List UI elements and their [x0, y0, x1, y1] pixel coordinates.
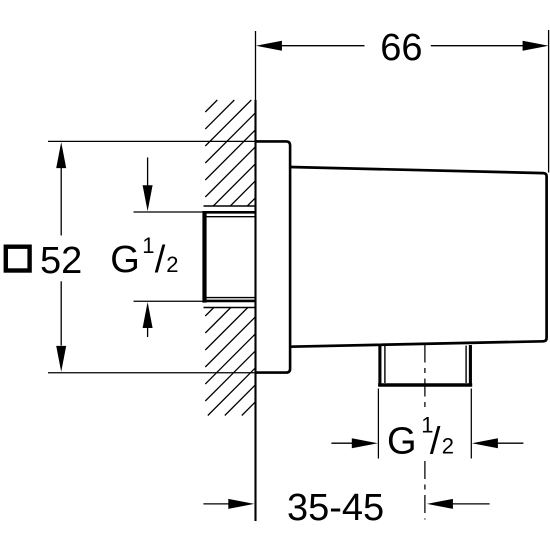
- inlet thread dim: extension line top: [134, 211, 204, 213]
- svg-text:/: /: [155, 239, 166, 281]
- centerline of outlet (dash-dot): [424, 345, 426, 520]
- outlet thread stub G1/2 (bottom): [378, 345, 472, 386]
- svg-text:52: 52: [40, 240, 82, 282]
- inlet thread dim: extension line bottom: [134, 300, 204, 302]
- dimension 35-45: right arrow to centerline: [427, 499, 490, 509]
- inlet thread dim: lower arrow (up): [143, 302, 153, 337]
- svg-text:G: G: [387, 420, 417, 462]
- outlet thread dim: left arrow: [331, 438, 377, 448]
- svg-text:/: /: [430, 420, 441, 462]
- inlet thread dim: upper arrow (down): [143, 158, 153, 212]
- svg-text:1: 1: [142, 233, 154, 258]
- dimension 52: dimension line with arrows: [56, 142, 66, 372]
- outlet thread dim: right arrow: [472, 438, 524, 448]
- svg-text:2: 2: [166, 252, 178, 277]
- inlet thread nipple G1/2 (inside wall): [203, 211, 256, 303]
- dimension 66: extension line right: [548, 30, 550, 173]
- svg-text:35-45: 35-45: [287, 487, 384, 529]
- dimension 52: extension line bottom: [48, 372, 255, 374]
- tapered body: [290, 167, 546, 347]
- dimension 52: extension line top: [48, 140, 255, 142]
- dimension 52: square symbol: [6, 247, 30, 271]
- flange plate (square escutcheon): [255, 141, 290, 372]
- inlet thread label G 1/2: [110, 233, 178, 281]
- wall hole upper boundary: [204, 205, 256, 207]
- outlet thread dim: extension line right: [470, 389, 472, 459]
- dimension 66: dimension line with arrows: [256, 41, 549, 51]
- svg-text:66: 66: [380, 27, 422, 69]
- svg-text:G: G: [110, 239, 140, 281]
- wall hole lower boundary: [204, 307, 256, 309]
- wall hatching (section lines): [205, 100, 255, 416]
- outlet thread label G 1/2: [387, 413, 454, 463]
- svg-text:2: 2: [442, 433, 454, 458]
- wall face line (with upper extension for 66 dim): [255, 31, 257, 521]
- outlet thread dim: extension line left: [377, 389, 379, 459]
- dimension 35-45: left arrow to wall face: [203, 499, 254, 509]
